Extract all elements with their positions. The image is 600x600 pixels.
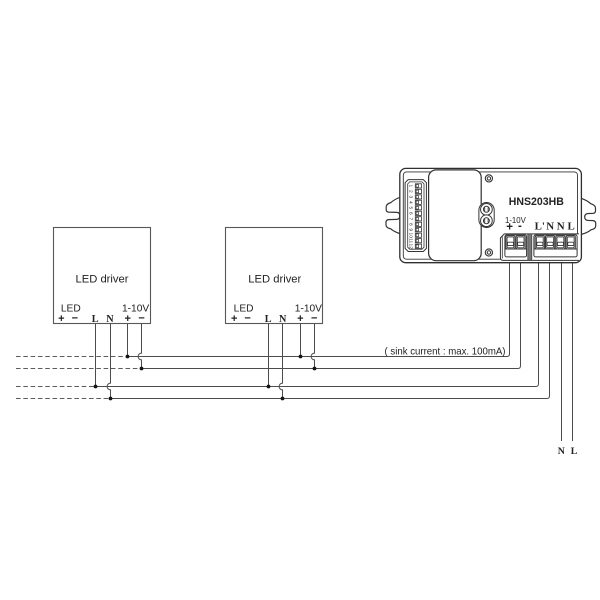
- PSU1 dim pin -: [138, 312, 144, 324]
- DIP switch 8: [408, 222, 422, 226]
- terminal pocket recess: [500, 234, 579, 261]
- DIP switch 10: [408, 233, 422, 239]
- svg-text:( sink current : max. 100mA): ( sink current : max. 100mA): [385, 347, 506, 358]
- PSU1 LED output pin -: [72, 312, 78, 324]
- pin label N (switched): [546, 220, 554, 232]
- label: mains N: [558, 446, 565, 457]
- svg-text:+: +: [506, 222, 513, 234]
- PSU1 dim pin +: [124, 313, 130, 325]
- PSU1 label "LED driver": [76, 274, 129, 286]
- svg-text:+: +: [58, 313, 64, 325]
- PSU1 mains pin L: [92, 314, 99, 325]
- LED driver PSU1 body: [54, 228, 151, 324]
- svg-text:-: -: [518, 220, 522, 232]
- PSU2 label "LED driver": [248, 274, 301, 286]
- svg-text:L: L: [567, 220, 574, 232]
- DIP switch 11: [408, 238, 422, 243]
- svg-text:N: N: [557, 220, 565, 232]
- label: mains L: [571, 446, 578, 457]
- light-sensor window (stadium): [479, 203, 494, 228]
- TB2 terminal N2 cup: [556, 236, 565, 249]
- DIP switch 9: [408, 228, 422, 232]
- PSU2 label "LED" (output section): [234, 304, 254, 315]
- svg-text:1: 1: [408, 185, 414, 188]
- pin label + (dim): [506, 222, 513, 234]
- svg-text:+: +: [297, 313, 303, 325]
- svg-text:LED driver: LED driver: [76, 274, 129, 286]
- net L' (switched live) bus: dashed continuation: [16, 386, 96, 388]
- mounting ear right: [581, 198, 596, 234]
- pin label L': [535, 220, 545, 232]
- svg-text:L: L: [571, 446, 578, 457]
- wire: PSU1 dim + down to DIM+ bus: [127, 324, 129, 357]
- svg-text:HNS203HB: HNS203HB: [509, 196, 564, 208]
- module lid: [429, 170, 482, 261]
- PSU2 mains pin N: [279, 314, 287, 325]
- net DIM+ bus: dashed continuation to further drivers: [16, 356, 128, 358]
- junction: PSU2 dim- on DIM- bus: [313, 367, 317, 371]
- sensor eye lower: [481, 215, 493, 227]
- LED driver PSU2 body: [226, 228, 323, 324]
- DIP switch 3: [408, 195, 422, 199]
- DIP switch 1: [408, 184, 422, 188]
- wire: PSU2 dim + down to DIM+ bus: [300, 324, 302, 357]
- svg-text:2: 2: [408, 190, 414, 193]
- net DIM- bus: dashed continuation: [16, 368, 142, 370]
- terminal block TB1 (1-10V) housing: [505, 235, 527, 257]
- svg-text:N: N: [558, 446, 565, 457]
- wire: mains L lead from sensor: [572, 261, 574, 441]
- PSU1 label "LED" (output section): [61, 304, 81, 315]
- svg-text:N: N: [546, 220, 554, 232]
- PSU1 LED output pin +: [58, 313, 64, 325]
- wire: PSU1 N down to N bus (hops over L' bus): [107, 324, 110, 399]
- terminal block TB2 (mains) housing: [534, 235, 577, 257]
- junction: PSU2 N on N bus: [281, 397, 285, 401]
- svg-text:9: 9: [408, 228, 414, 231]
- junction: PSU2 dim+ on DIM+ bus: [299, 355, 303, 359]
- PSU1 label "1-10V" (dim input): [122, 304, 149, 315]
- svg-text:7: 7: [408, 217, 414, 220]
- svg-text:−: −: [138, 312, 144, 324]
- svg-text:12: 12: [408, 244, 414, 250]
- net N bus: dashed continuation: [16, 398, 111, 400]
- note: sink current rating: [385, 347, 506, 358]
- wire: mains N lead from sensor: [561, 261, 563, 441]
- DIP switch 5: [408, 206, 422, 210]
- wire: N bus solid run to sensor N terminal: [111, 261, 550, 398]
- PSU2 mains pin L: [265, 314, 272, 325]
- svg-text:L': L': [535, 220, 545, 232]
- svg-text:L: L: [265, 314, 272, 325]
- TB1 terminal + cup: [506, 236, 515, 249]
- svg-text:6: 6: [408, 212, 414, 215]
- wire: DIM+ bus solid run to sensor + terminal: [128, 261, 510, 356]
- screw hole bottom: [485, 249, 492, 256]
- screw hole top: [485, 175, 492, 182]
- svg-text:3: 3: [408, 196, 414, 199]
- PSU2 LED output pin +: [231, 313, 237, 325]
- junction: PSU1 N on N bus: [109, 397, 113, 401]
- TB1 terminal - cup: [516, 236, 525, 249]
- DIP switch 6: [408, 211, 422, 215]
- DIP switch 12: [408, 244, 422, 250]
- pin label N (mains): [557, 220, 565, 232]
- DIP switch bank SW1 inner frame: [408, 182, 424, 249]
- PSU2 dim pin -: [311, 312, 317, 324]
- sensor eye upper: [481, 204, 493, 216]
- PSU2 LED output pin -: [244, 312, 250, 324]
- svg-text:5: 5: [408, 206, 414, 209]
- TB2 terminal L' cup: [535, 236, 544, 249]
- junction: PSU2 L on L' bus: [267, 385, 271, 389]
- PSU2 dim pin +: [297, 313, 303, 325]
- wire: PSU2 N down to N bus (hops over L' bus): [279, 324, 282, 399]
- TB2 face line: [534, 248, 577, 250]
- DIP switch 7: [408, 217, 422, 221]
- svg-text:−: −: [311, 312, 317, 324]
- svg-text:+: +: [124, 313, 130, 325]
- TB2 terminal N cup: [546, 236, 555, 249]
- junction: PSU1 dim+ on DIM+ bus: [126, 355, 130, 359]
- DIP switch 2: [408, 189, 422, 193]
- wire: PSU2 dim - down to DIM- bus (hops over DIM+ bus): [311, 324, 314, 369]
- sensor body inner shell line: [403, 172, 577, 259]
- svg-text:N: N: [106, 314, 114, 325]
- DIP switch bank SW1 bezel: [405, 180, 426, 252]
- svg-text:+: +: [231, 313, 237, 325]
- svg-text:−: −: [72, 312, 78, 324]
- mounting ear left: [386, 197, 401, 234]
- pin label - (dim): [518, 220, 522, 232]
- svg-text:L: L: [92, 314, 99, 325]
- wire: DIM- bus solid run to sensor - terminal: [142, 261, 521, 368]
- PSU1 mains pin N: [106, 314, 114, 325]
- divider between terminal blocks (hatched): [528, 234, 532, 260]
- DIP switch rows 1-12: [408, 184, 422, 249]
- wire: PSU2 L down to L' bus: [268, 324, 270, 387]
- TB2 terminal L cup: [566, 236, 575, 249]
- svg-text:N: N: [279, 314, 287, 325]
- sensor body outer shell: [400, 168, 582, 262]
- wire: PSU1 dim - down to DIM- bus (hops over DIM+ bus): [138, 324, 141, 369]
- svg-text:4: 4: [408, 201, 414, 204]
- sensor module U1 HNS203HB: [386, 168, 596, 262]
- svg-text:LED driver: LED driver: [248, 274, 301, 286]
- label: 1-10V (dim output): [505, 216, 527, 225]
- label: HNS203HB: [509, 196, 564, 208]
- junction: PSU1 L on L' bus: [94, 385, 98, 389]
- wire: PSU1 L down to L' bus: [95, 324, 97, 387]
- svg-text:−: −: [244, 312, 250, 324]
- PSU2 label "1-10V" (dim input): [295, 304, 322, 315]
- wire: L' bus solid run to sensor L' terminal: [96, 261, 539, 386]
- DIP switch 4: [408, 200, 422, 204]
- pin label L (mains): [567, 220, 574, 232]
- svg-text:8: 8: [408, 223, 414, 226]
- TB1 face line: [505, 248, 527, 250]
- junction: PSU1 dim- on DIM- bus: [140, 367, 144, 371]
